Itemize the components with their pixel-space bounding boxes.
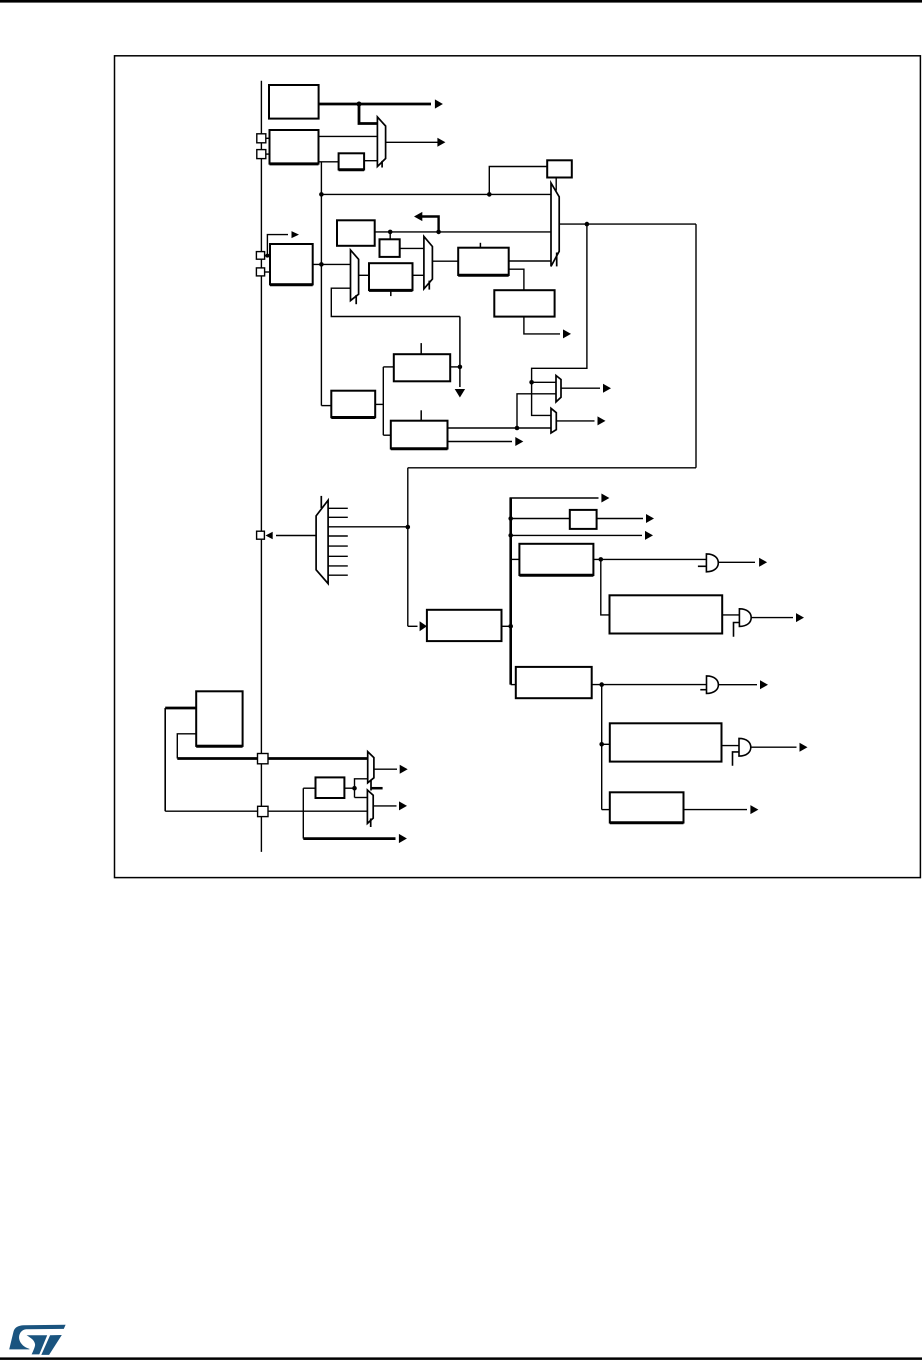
heavy bottom edge box B: [270, 162, 319, 165]
bus tap square 1: [257, 134, 266, 143]
gate 3: [707, 676, 719, 694]
wire gate 2 output arrow: [751, 617, 793, 619]
arrow gate 3: [760, 680, 768, 689]
wire into box M: [321, 405, 331, 407]
fan demux output stubs: [328, 507, 348, 509]
junction dots: [265, 102, 604, 791]
wire bent arrow from sqA: [267, 235, 288, 256]
wire to small box SB: [489, 167, 547, 195]
gate 4: [739, 738, 751, 756]
wire thick line y=758.5 to mux Y: [177, 757, 367, 760]
arrow mux S1 out: [603, 384, 611, 393]
big arrow box A out: [435, 99, 443, 108]
wire mux S2 output arrow: [556, 420, 594, 422]
node on box A output: [357, 102, 362, 107]
mux S1: [556, 376, 561, 402]
wire mux H input 2 loop: [331, 288, 460, 316]
wire bent left arrow: [421, 217, 439, 232]
fan output stubs: [328, 508, 348, 575]
wire y=194 to mux M2 input 1: [321, 193, 551, 195]
heavy bottom edge box X: [196, 745, 242, 748]
wire box Q output to gate 1: [593, 558, 706, 560]
mux M1: [377, 117, 385, 167]
wire gate 4 output arrow: [751, 746, 797, 748]
wire box N output 2 arrow: [448, 441, 513, 443]
box R: [610, 595, 723, 633]
node on fan line: [406, 525, 411, 530]
wire into box U: [602, 743, 610, 745]
wire box I output to mux G: [413, 274, 424, 276]
wire down from box T junction: [601, 685, 603, 810]
ST logo part 3 (T slant stroke): [41, 1335, 62, 1355]
wire thick branch down to mux M1: [359, 104, 377, 124]
wire branch 2 to box P: [511, 518, 570, 520]
arrow branch 1: [601, 494, 609, 503]
box M: [331, 391, 375, 418]
boxes: [196, 85, 722, 823]
bus tap square 2: [257, 150, 266, 159]
heavy bottom edge box D: [270, 283, 313, 286]
arrow box K out: [563, 329, 571, 338]
node spine branch 3: [508, 533, 513, 538]
wire into box W: [602, 809, 610, 811]
wire box K to arrow: [524, 317, 560, 334]
bus tap square 7: [258, 806, 268, 816]
wire fan input arrow to bus: [276, 535, 316, 537]
arrow into box V: [420, 621, 427, 631]
arrow box N out 2: [515, 437, 523, 446]
bus tap square 4: [256, 268, 264, 276]
wire thick bottom arrow: [303, 837, 395, 840]
bus tap square 5: [257, 531, 265, 539]
node on box L output: [458, 365, 463, 370]
wire big loop left vertical: [407, 468, 409, 627]
wire box W output arrow: [684, 809, 748, 811]
box F: [380, 239, 400, 257]
tick box J top: [479, 243, 481, 248]
wire into box P2: [303, 787, 315, 789]
arrowheads: [266, 99, 808, 843]
arrow gate 4: [800, 743, 808, 752]
arrow bent left: [414, 212, 422, 221]
node on mux M2 output: [585, 222, 590, 227]
heavy bottom edge box M: [331, 416, 375, 419]
node spine box V: [508, 624, 513, 629]
tick box L top: [420, 343, 422, 354]
arrow down: [455, 389, 465, 398]
wire box B to box C: [319, 161, 339, 163]
arrow bent from sqA: [292, 231, 300, 238]
node on box N output: [515, 426, 520, 431]
node at box D input: [265, 254, 269, 258]
mux Y select tail: [370, 780, 372, 791]
wire box M output split: [375, 403, 383, 405]
wire box N output 1 to mux S2: [448, 427, 552, 429]
arrow branch 3: [645, 531, 653, 540]
wire box E output to mux M2 input 2: [375, 231, 551, 233]
mux Z select tail: [370, 819, 372, 828]
wire sq5 to mux Z input: [268, 810, 367, 812]
mux M2: [551, 183, 559, 266]
bus tap square 6: [258, 754, 269, 764]
wire mux M2 output: [559, 223, 696, 225]
tick box N top: [420, 410, 422, 420]
bottom rule: [0, 1357, 922, 1360]
wire mux H output to box I: [359, 274, 369, 276]
wire big loop bottom horizontal: [408, 467, 696, 469]
wire mux Z output arrow: [373, 805, 396, 807]
wire down arrow line: [459, 317, 461, 388]
wire box X left loop: [164, 708, 166, 811]
wire up branch to mux S1 input 2: [517, 394, 556, 428]
wire box C to mux M1: [364, 160, 377, 162]
node at bent arrow: [436, 230, 441, 235]
box ticks: [391, 243, 481, 421]
bus squares: [256, 134, 268, 817]
box K: [494, 290, 554, 316]
wire box P to arrow: [597, 518, 643, 520]
box D: [270, 244, 313, 284]
arrow mux Z out: [399, 801, 407, 810]
heavy bottom edge box W: [610, 821, 684, 824]
box SB: [547, 160, 572, 177]
wire gate 1 output arrow: [718, 561, 755, 563]
arrow gate 2: [796, 613, 804, 622]
box E: [337, 220, 375, 246]
top rule: [0, 0, 922, 3]
heavy bottom edge box I: [369, 289, 413, 292]
box T: [516, 667, 592, 698]
wire box X lower port: [177, 734, 196, 759]
muxes: [316, 117, 561, 827]
arrow box P out: [646, 514, 654, 523]
gate 2: [739, 609, 751, 627]
mux Z: [367, 790, 373, 823]
wire box P2 output split: [344, 787, 354, 789]
gate 2 input stub: [734, 623, 740, 637]
wire box J output to mux M2 input 3: [509, 260, 551, 262]
wire box X upper port thick: [165, 707, 196, 710]
wire box J to box K: [509, 269, 524, 290]
box I: [369, 263, 413, 290]
AND gates: [698, 554, 751, 766]
mux Y/Z select stub: [371, 787, 383, 790]
wire branch to box Q: [511, 558, 520, 560]
arrow mux M1 out: [437, 138, 445, 147]
wire down to box R: [601, 559, 610, 615]
node to mux S1: [529, 380, 534, 385]
gate 1 input stub: [698, 565, 707, 567]
node on box D output: [319, 262, 324, 267]
big arrow bottom thick: [399, 834, 407, 843]
wire stub to box F top: [389, 232, 391, 239]
spine vertical: [509, 498, 512, 685]
wire mux G output to box J: [432, 260, 458, 262]
heavy bottom edge box J: [458, 274, 509, 277]
wire mux Y output arrow: [374, 768, 397, 770]
box L: [394, 354, 450, 381]
wire branch 1 arrow: [510, 497, 599, 499]
box C: [339, 153, 365, 169]
mux M1 select tail: [381, 161, 383, 168]
wire arrow into box V: [408, 625, 418, 627]
wire box B to mux M1: [319, 135, 378, 137]
wire SB select into mux M2: [555, 178, 557, 191]
box U: [610, 723, 722, 761]
mux H: [351, 250, 359, 301]
wire box F to mux G: [400, 247, 424, 249]
node at box U input: [599, 742, 604, 747]
box V: [427, 610, 502, 641]
wire branch to mux S1 input 1: [532, 381, 556, 383]
ST logo part 2 (S lower wedge): [27, 1335, 48, 1354]
box W: [610, 792, 684, 822]
mux G select tail: [428, 281, 430, 290]
wire sq stubs to box D: [265, 255, 270, 257]
tick box I bottom: [390, 290, 392, 296]
bus tap square 3: [256, 252, 264, 260]
box J: [458, 248, 509, 275]
node spine branch 2: [508, 516, 513, 521]
box P: [570, 510, 597, 529]
wire branch 3 arrow: [511, 534, 642, 536]
box N: [391, 421, 448, 449]
wire box T output to gate 3: [592, 684, 707, 686]
wire box A thick output: [319, 103, 431, 106]
mux H select tail: [355, 295, 357, 304]
arrow mux S2 out: [598, 416, 606, 425]
fan demux select stub: [320, 496, 322, 508]
node on box Q output: [599, 557, 604, 562]
wire spine jog into box T: [511, 684, 516, 686]
wire box V output to spine: [502, 625, 511, 627]
arrow mux Y out: [400, 765, 408, 774]
arrow gate 1: [759, 558, 767, 567]
wire gate 3 output arrow: [718, 684, 757, 686]
wire APB bus vertical: [260, 81, 262, 852]
box A: [269, 85, 319, 119]
arrow fan to bus (left): [266, 532, 273, 540]
heavy bottom edge box C: [339, 168, 365, 171]
gate 4 input stub: [733, 752, 740, 766]
wire big loop right vertical: [695, 224, 697, 468]
node on box P2 output: [352, 786, 357, 791]
wire box R output to gate 2: [722, 614, 739, 616]
mux G: [424, 236, 433, 289]
heavy bottom edge box Q: [519, 574, 593, 577]
box X: [196, 691, 242, 746]
gate 1: [706, 554, 718, 572]
node on box T output: [599, 682, 604, 687]
wire box D output: [313, 263, 351, 265]
wire fan line 3 long: [328, 526, 408, 528]
node on wire y194: [319, 192, 324, 197]
gate 3 input stub: [700, 689, 706, 691]
wire feedback down from dot 587: [532, 224, 587, 415]
node above box F: [388, 230, 393, 235]
mux M2 select tail: [556, 253, 558, 267]
ST logo part 1 (top bar and S upper stroke): [9, 1325, 65, 1350]
box P2: [316, 777, 345, 798]
arrow box W out: [750, 805, 758, 814]
heavy bottom edge box N: [391, 447, 448, 450]
wire mux S1 output arrow: [561, 387, 600, 389]
node to box SB: [487, 192, 492, 197]
wire box U output to gate 4: [722, 745, 740, 747]
mux Y: [368, 752, 374, 783]
wire box L output: [450, 366, 460, 368]
box B: [270, 130, 319, 164]
wire mux M1 output arrow: [386, 141, 443, 143]
wire vertical x=303: [302, 788, 304, 838]
mux S2: [551, 408, 556, 433]
box Q: [519, 544, 593, 575]
fan demux F1: [316, 500, 328, 583]
wire sq stubs to box B: [266, 137, 270, 139]
wire vertical x=321: [320, 162, 322, 406]
